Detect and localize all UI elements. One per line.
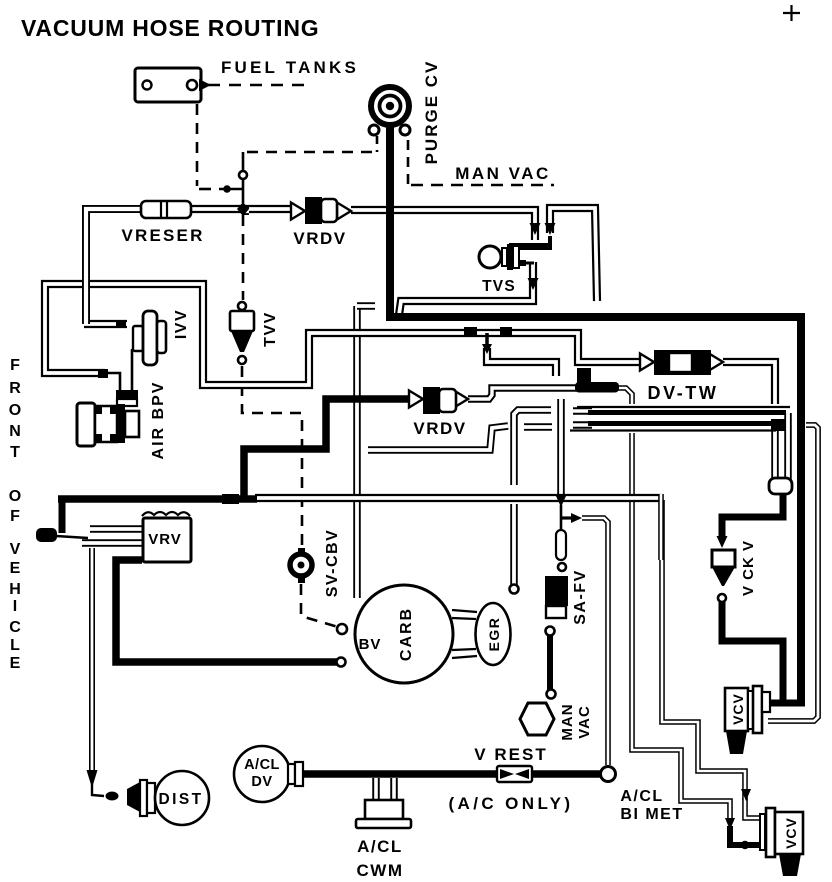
svg-text:TVS: TVS [482, 278, 516, 295]
svg-text:VCV: VCV [783, 817, 799, 849]
svg-text:C: C [9, 619, 21, 636]
svg-text:BI MET: BI MET [620, 806, 683, 823]
svg-text:IVV: IVV [173, 309, 190, 339]
svg-text:BV: BV [359, 636, 382, 653]
svg-text:F: F [10, 508, 20, 525]
svg-text:VCV: VCV [730, 693, 746, 725]
svg-text:VRDV: VRDV [293, 229, 346, 248]
svg-text:O: O [9, 402, 21, 419]
svg-text:VAC: VAC [576, 705, 593, 739]
svg-text:E: E [10, 655, 21, 672]
svg-text:TVV: TVV [262, 311, 279, 347]
svg-text:I: I [13, 598, 17, 615]
svg-text:MAN: MAN [559, 703, 576, 740]
svg-text:CARB: CARB [398, 607, 415, 661]
svg-text:VRV: VRV [148, 531, 182, 548]
svg-text:SA-FV: SA-FV [572, 569, 589, 625]
svg-text:AIR BPV: AIR BPV [150, 381, 167, 460]
svg-text:H: H [9, 581, 21, 598]
svg-text:MAN VAC: MAN VAC [455, 164, 551, 183]
svg-text:(A/C ONLY): (A/C ONLY) [449, 794, 574, 813]
svg-text:VRDV: VRDV [413, 419, 466, 438]
svg-text:V: V [10, 541, 21, 558]
svg-text:E: E [10, 560, 21, 577]
svg-text:A/CL: A/CL [357, 837, 403, 856]
svg-text:EGR: EGR [486, 617, 502, 652]
svg-text:R: R [9, 380, 21, 397]
svg-text:T: T [10, 444, 20, 461]
svg-text:VRESER: VRESER [121, 226, 204, 245]
svg-text:CWM: CWM [357, 861, 404, 880]
svg-text:V REST: V REST [474, 745, 547, 764]
svg-text:PURGE CV: PURGE CV [422, 60, 441, 165]
svg-text:A/CL: A/CL [620, 788, 663, 805]
svg-text:VACUUM HOSE ROUTING: VACUUM HOSE ROUTING [21, 15, 319, 41]
svg-text:L: L [10, 637, 20, 654]
svg-text:DIST: DIST [159, 791, 204, 808]
svg-text:DV: DV [251, 774, 272, 790]
svg-text:V CK V: V CK V [740, 540, 757, 596]
svg-text:FUEL TANKS: FUEL TANKS [221, 58, 359, 77]
svg-text:N: N [9, 423, 21, 440]
svg-text:SV-CBV: SV-CBV [324, 529, 341, 598]
svg-text:F: F [10, 357, 20, 374]
svg-text:O: O [9, 488, 21, 505]
svg-text:DV-TW: DV-TW [648, 383, 719, 403]
svg-text:A/CL: A/CL [244, 757, 280, 773]
